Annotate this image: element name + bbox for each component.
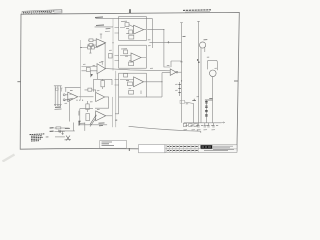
resistor R30 bbox=[56, 127, 61, 129]
resistor R6 bbox=[129, 35, 134, 39]
zener stack D1 bbox=[178, 82, 193, 104]
label box bbox=[180, 100, 185, 103]
diode chain D2 bbox=[205, 98, 213, 122]
wire stub bbox=[78, 111, 80, 116]
wire U1 output drop bbox=[81, 43, 106, 69]
junction dots bbox=[80, 29, 213, 100]
label 1X bbox=[99, 123, 105, 126]
vertical rail x113 bbox=[112, 19, 114, 71]
op-amp U5 bbox=[134, 25, 144, 34]
wire bbox=[65, 95, 68, 100]
wire bbox=[57, 86, 60, 105]
wire drop bbox=[196, 129, 198, 131]
wire hook to V4 bbox=[171, 61, 182, 67]
wire box3 left ext bbox=[115, 97, 119, 114]
capacitor C4 bbox=[197, 123, 199, 127]
wire bbox=[74, 123, 85, 131]
top-right stamp label bbox=[183, 10, 211, 12]
value labels bbox=[87, 44, 94, 46]
left fold mark bbox=[17, 81, 21, 83]
revision table bbox=[22, 10, 62, 15]
node dot bbox=[68, 99, 69, 100]
resistor R12 bbox=[86, 101, 89, 112]
wire below UA bbox=[96, 74, 98, 80]
op-amp U4 bbox=[96, 111, 106, 121]
arrow bbox=[221, 122, 224, 124]
channel box 3 bbox=[115, 73, 162, 120]
wire bbox=[65, 88, 81, 92]
resistor RA bbox=[86, 68, 90, 78]
+V stub bbox=[100, 34, 102, 39]
wire bbox=[54, 86, 57, 105]
wire riser bbox=[146, 73, 162, 97]
wire U3 output feedback bbox=[95, 97, 109, 108]
capacitor C20 bbox=[59, 130, 60, 132]
wire diag jack bbox=[64, 98, 73, 121]
op-amp U2 bbox=[68, 92, 78, 101]
value labels bbox=[184, 129, 216, 131]
resistor R7 bbox=[124, 50, 128, 54]
resistor R1 bbox=[56, 88, 59, 90]
component label bbox=[79, 122, 85, 124]
sub box with resistor RC bbox=[94, 79, 113, 92]
resistor R5 bbox=[129, 30, 133, 34]
resistor R2 bbox=[89, 39, 93, 42]
wire horiz y42 bbox=[149, 41, 181, 43]
wire bbox=[54, 127, 68, 129]
op-amp U3 bbox=[96, 93, 105, 102]
capacitor C1 bbox=[184, 122, 186, 125]
plus mark bbox=[167, 41, 169, 43]
notes text block bbox=[30, 134, 49, 141]
stub wire bbox=[89, 49, 91, 53]
wire bbox=[54, 130, 64, 132]
channel box 2 bbox=[119, 45, 147, 68]
resistor RD bbox=[88, 46, 91, 49]
resistor R10b bbox=[129, 91, 134, 95]
wire UA inputs bbox=[82, 67, 98, 71]
capacitor C6 bbox=[207, 123, 209, 127]
junction dots bbox=[197, 59, 200, 63]
capacitor C5 bbox=[204, 123, 206, 127]
resistor R21 bbox=[78, 121, 80, 126]
transistor Q2 bbox=[200, 42, 206, 48]
op-amp U7 bbox=[134, 77, 144, 87]
wire stepped from box1 bbox=[147, 30, 170, 67]
resistor R3 bbox=[89, 44, 93, 47]
wire parallel bbox=[200, 48, 202, 123]
feedback box bbox=[80, 109, 107, 125]
resistor R11 bbox=[85, 88, 96, 92]
resistor R13 bbox=[86, 114, 96, 125]
wire bbox=[178, 71, 182, 73]
label v bbox=[115, 119, 117, 121]
node dots bbox=[76, 100, 83, 101]
wire bbox=[81, 47, 83, 49]
ground bbox=[54, 105, 56, 106]
resistor R9 bbox=[124, 74, 128, 78]
transistor QA bbox=[91, 74, 93, 77]
resistor R10 bbox=[127, 82, 132, 86]
left input jacks bbox=[54, 86, 62, 110]
wire bbox=[120, 25, 146, 32]
transistor Q1 bbox=[207, 60, 217, 123]
wire top long bbox=[152, 19, 154, 48]
channel box 1 bbox=[119, 17, 147, 41]
wire bbox=[193, 104, 195, 123]
scan corner shadow bbox=[3, 155, 15, 162]
capacitor C2 bbox=[189, 122, 191, 125]
wire bbox=[88, 40, 96, 45]
title block strip bbox=[139, 145, 238, 153]
wire U4 output bbox=[106, 115, 112, 117]
inverter U8 bbox=[170, 69, 181, 76]
wire bbox=[59, 130, 75, 132]
resistor R4 bbox=[125, 23, 129, 27]
main bus wire bbox=[106, 69, 171, 71]
wire stubs into boxes bbox=[115, 28, 119, 86]
approval stamp box bbox=[100, 140, 127, 148]
potentiometer arrow bbox=[90, 115, 96, 124]
rail pair bbox=[112, 71, 115, 127]
title block part number (black) bbox=[201, 145, 213, 149]
op-amp UA bbox=[97, 61, 106, 73]
wire bbox=[120, 80, 146, 95]
pot arrow bbox=[90, 118, 96, 127]
wire box3 bottom ext bbox=[146, 96, 162, 98]
bottom bus bbox=[183, 122, 224, 130]
wire bbox=[120, 56, 146, 58]
op-amp U1 top bbox=[96, 31, 110, 47]
wire hook bbox=[207, 60, 217, 70]
wire slant bbox=[185, 102, 194, 104]
ground bbox=[62, 131, 64, 134]
capacitor C10 bbox=[192, 99, 196, 123]
rail V4 bbox=[180, 23, 185, 123]
resistor RB bbox=[109, 54, 113, 59]
rail V5 bbox=[197, 21, 207, 122]
wire emitter bbox=[211, 77, 213, 123]
wire bundle lower bbox=[162, 72, 170, 74]
input label J1 bbox=[50, 127, 69, 129]
input stub TP2 bbox=[95, 25, 113, 29]
capacitor C3 bbox=[195, 122, 197, 125]
input terminal circles bbox=[56, 88, 68, 101]
capacitor C7 bbox=[212, 123, 214, 127]
long curved bus bottom bbox=[129, 126, 201, 133]
+V stub bbox=[101, 61, 104, 64]
component with X bbox=[55, 136, 65, 138]
reference designator text specks bbox=[65, 29, 219, 126]
right fold mark bbox=[234, 80, 238, 82]
border frame bbox=[20, 12, 239, 151]
resistor RE bbox=[91, 46, 94, 49]
trimmer block lower-left bbox=[55, 118, 96, 141]
wire bbox=[59, 86, 62, 105]
bottom fold mark bbox=[128, 148, 130, 151]
wire U2 output bbox=[79, 96, 94, 98]
input stub TP1 bbox=[95, 17, 153, 19]
input label J2 bbox=[50, 130, 65, 134]
resistor R8 bbox=[129, 62, 134, 66]
module boundary vertical bbox=[80, 40, 82, 100]
top fold mark bbox=[129, 9, 131, 13]
op-amp U6 bbox=[131, 53, 141, 62]
